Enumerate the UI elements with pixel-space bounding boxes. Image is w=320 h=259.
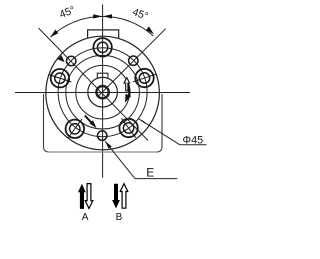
body bottom edge gray overlay <box>49 151 157 153</box>
shaft center thick ring <box>96 86 108 98</box>
pilot circle <box>66 55 140 129</box>
flow arrow B up hollow <box>120 184 128 209</box>
bolt hole bottom right <box>119 118 137 137</box>
flange outer circle <box>46 36 160 150</box>
svg-text:B: B <box>116 212 123 223</box>
vertical centerline <box>102 5 104 178</box>
leader for phi45 <box>138 119 180 145</box>
dimension arc left 45deg <box>50 16 102 37</box>
small hole bottom E port <box>98 131 107 140</box>
bolt hole left <box>49 69 72 87</box>
hollow arrow up near center <box>124 78 130 91</box>
small hole upper right <box>129 56 138 65</box>
svg-text:E: E <box>146 166 154 180</box>
horizontal centerline <box>15 92 190 94</box>
motor body outline <box>44 94 163 152</box>
45deg hole axis line upper-right to center <box>99 29 166 96</box>
arrowhead on diagonal at upper-left small hole <box>58 55 65 62</box>
bolt hole right <box>133 69 156 87</box>
flow arrow A up solid <box>78 184 86 209</box>
small hole upper left <box>67 56 76 65</box>
arrowhead right arc end <box>146 26 154 34</box>
thick arrow toward bottom small hole <box>85 116 93 124</box>
dimension arc right 45deg <box>103 16 154 36</box>
arrowhead at top center pointing left <box>103 14 112 18</box>
svg-text:Φ45: Φ45 <box>183 134 204 146</box>
inner circle <box>76 65 130 119</box>
leader for E <box>105 141 135 178</box>
rotation arc arrow right of center <box>128 83 130 96</box>
center keyway tab <box>97 73 108 78</box>
bolt circle <box>58 48 147 137</box>
bolt hole bottom left <box>66 119 84 138</box>
arrowhead left arc end <box>50 30 58 38</box>
arrowhead at top center pointing right <box>93 14 102 18</box>
top tab <box>88 30 119 39</box>
bolt hole top <box>93 38 111 56</box>
flow arrow B down solid <box>112 184 120 209</box>
shaft bore circle <box>88 77 118 107</box>
45deg hole axis line upper-left to lower-right <box>39 28 148 140</box>
svg-text:A: A <box>82 212 89 223</box>
flow arrow A down hollow <box>85 184 93 209</box>
